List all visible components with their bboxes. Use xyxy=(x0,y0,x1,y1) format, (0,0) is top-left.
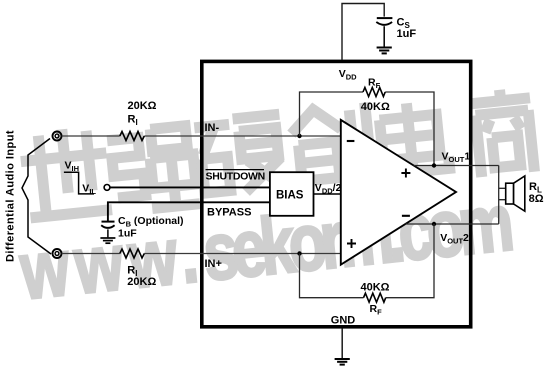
svg-text:RI: RI xyxy=(128,114,138,128)
wire: VOUT1 to load xyxy=(414,165,499,167)
capacitor CB xyxy=(101,222,114,238)
svg-text:40KΩ: 40KΩ xyxy=(361,101,390,113)
wire: top input to IN- pin xyxy=(62,135,341,137)
wire: bottom input to IN+ pin xyxy=(62,253,341,255)
output1 polarity sign + xyxy=(401,169,410,178)
svg-text:IN-: IN- xyxy=(205,122,220,134)
inverting input sign xyxy=(347,140,355,142)
junction on IN+ wire xyxy=(297,251,301,255)
BIAS block xyxy=(270,172,314,216)
wire: bottom feedback loop xyxy=(300,224,435,298)
ground (below CB) xyxy=(100,238,115,243)
wire: GND pin to ground xyxy=(341,328,343,358)
shutdown input terminal xyxy=(104,185,110,191)
op-amp (bridged power amplifier) xyxy=(341,120,456,265)
junction on IN- wire xyxy=(297,134,301,138)
output2 polarity sign - xyxy=(402,215,410,217)
curly brace for differential input xyxy=(22,139,51,255)
pin label SHUTDOWN (with overline) xyxy=(206,169,265,171)
svg-text:GND: GND xyxy=(331,315,356,327)
wire: BIAS output VDD/2 to amplifier xyxy=(314,193,341,195)
svg-text:BIAS: BIAS xyxy=(276,189,304,201)
ground (main GND) xyxy=(335,359,350,365)
resistor RF (bottom) xyxy=(364,293,386,302)
logic level symbol VIH/VIL xyxy=(64,172,94,194)
wire: speaker connection xyxy=(499,166,506,225)
svg-text:VDD: VDD xyxy=(339,68,357,82)
svg-text:SHUTDOWN: SHUTDOWN xyxy=(206,171,265,183)
resistor RI (bottom) xyxy=(120,249,145,258)
svg-text:IN+: IN+ xyxy=(205,258,222,270)
svg-text:20KΩ: 20KΩ xyxy=(127,276,156,288)
svg-text:8Ω: 8Ω xyxy=(529,193,544,205)
input terminal (bottom, IN+) xyxy=(53,249,62,258)
junction VOUT2 xyxy=(432,222,436,226)
svg-text:1uF: 1uF xyxy=(118,228,137,240)
junction VOUT1 xyxy=(432,163,436,167)
wire: top feedback loop xyxy=(300,92,435,164)
svg-text:RF: RF xyxy=(368,77,381,91)
wire: shutdown terminal to BIAS xyxy=(110,186,270,188)
svg-text:20KΩ: 20KΩ xyxy=(128,100,157,112)
svg-text:BYPASS: BYPASS xyxy=(207,207,251,219)
non-inverting input sign + xyxy=(347,239,356,248)
wire: bypass node to BIAS xyxy=(108,202,270,221)
resistor RI (top) xyxy=(120,132,145,141)
svg-text:VOUT1: VOUT1 xyxy=(442,150,471,164)
wire: VDD pin to supply rail xyxy=(342,4,384,61)
svg-text:1uF: 1uF xyxy=(397,28,417,40)
amplifier IC boundary box xyxy=(202,61,471,326)
capacitor CS xyxy=(376,18,392,47)
input terminal (top, IN-) xyxy=(53,132,62,141)
ground (below CS) xyxy=(377,48,392,54)
svg-text:40KΩ: 40KΩ xyxy=(361,281,390,293)
svg-text:RF: RF xyxy=(370,303,383,317)
svg-text:Differential Audio Input: Differential Audio Input xyxy=(5,130,17,262)
wire: VOUT2 to load xyxy=(405,223,498,225)
resistor RF (top) xyxy=(363,88,385,97)
speaker RL xyxy=(506,176,525,211)
